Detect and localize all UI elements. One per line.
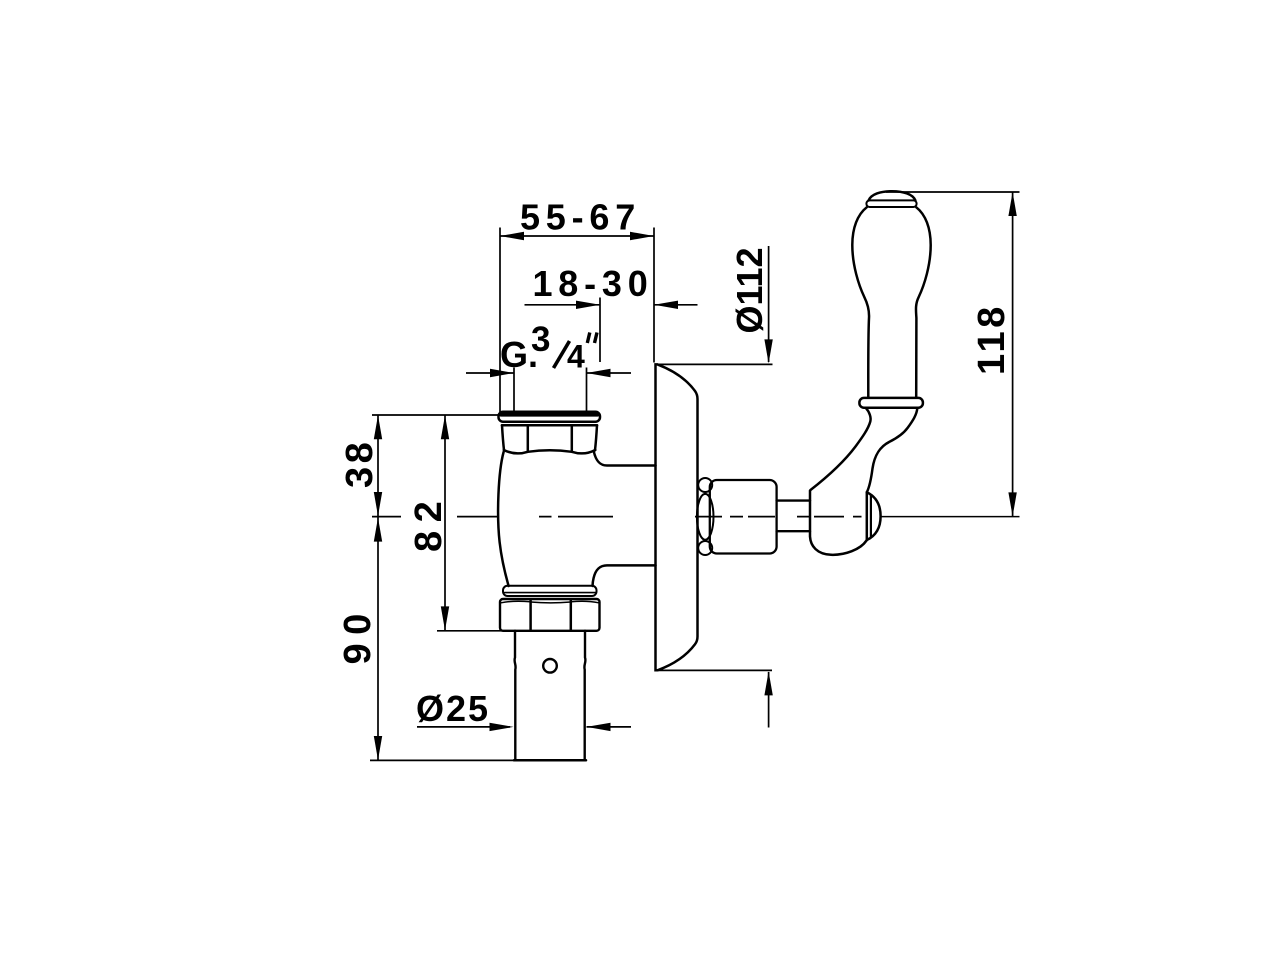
svg-text:3: 3 (531, 320, 550, 359)
dim 55-67 extension line left (499, 228, 501, 413)
svg-text:4: 4 (567, 339, 585, 375)
valve top cap disc (499, 412, 601, 422)
grip dome (869, 191, 916, 200)
dim O25 leader line (417, 726, 510, 728)
grip body right edge (916, 207, 931, 397)
arrowhead G3/4 right (587, 369, 611, 377)
dim O25 right tail (587, 726, 632, 728)
arrowhead 38 top (374, 415, 382, 439)
arrowhead G3/4 left (490, 369, 514, 377)
side tube bottom (593, 565, 656, 586)
dim G3/4 dimension line right tail (587, 372, 632, 374)
outlet pipe (515, 631, 516, 760)
lever ball chord (866, 492, 869, 540)
grip band (866, 200, 916, 207)
svg-text:Ø25: Ø25 (416, 688, 490, 729)
dim O112 extension line bottom (658, 669, 772, 671)
dim 82 extension line bottom (437, 630, 507, 632)
lever arm left edge (811, 408, 871, 490)
dim 18-30 dimension line left tail (525, 304, 601, 306)
center line (spindle axis) (372, 516, 862, 518)
arrowhead 118 bottom (1008, 492, 1016, 516)
arrowhead 38 bottom (374, 492, 382, 516)
svg-text:Ø112: Ø112 (729, 247, 770, 333)
dim O112 extension line top (656, 363, 773, 365)
bottom flange disc (503, 586, 597, 596)
bonnet block (710, 480, 777, 554)
upper hex nut (502, 424, 597, 427)
knurled ring bottom circle (698, 541, 712, 555)
svg-text:38: 38 (339, 439, 381, 488)
svg-text:55-67: 55-67 (520, 197, 641, 238)
spindle shaft bottom (777, 530, 810, 532)
dim 118 extension line top (886, 191, 1020, 193)
svg-text:118: 118 (971, 303, 1013, 375)
arrowhead 55-67 left (500, 232, 524, 240)
lever ball inner chord (870, 496, 872, 538)
arrowhead 18-30 right (654, 301, 678, 309)
screw hole (543, 659, 557, 673)
dim 18-30 dimension line right tail (654, 304, 698, 306)
dim 82 dimension line (444, 415, 446, 631)
arrowhead 18-30 left (576, 301, 600, 309)
dim O112 dimension line lower tail (768, 672, 770, 728)
svg-text:82: 82 (408, 493, 450, 552)
center line extension to 118 dim (881, 516, 1020, 518)
dim 55-67 extension line right / wall face (653, 228, 655, 363)
arrowhead 118 top (1008, 192, 1016, 216)
dim 118 dimension line (1012, 192, 1014, 516)
dim 38/90 dimension line (377, 415, 379, 760)
arrowhead 90 top (374, 518, 382, 542)
lower hex nut (500, 599, 600, 631)
lever ball arc (867, 492, 881, 540)
dim 90 extension line bottom (370, 759, 514, 761)
dim G3/4 extension line left (513, 368, 515, 412)
svg-text:90: 90 (337, 605, 379, 664)
dim G3/4 extension line right (586, 368, 588, 412)
lever arm right edge (867, 408, 918, 492)
grip body left edge (852, 207, 869, 397)
dim O112 dimension line upper tail (768, 246, 770, 362)
spindle shaft top (777, 499, 810, 501)
valve body left edge (498, 452, 508, 586)
dim 18-30 extension line (599, 298, 601, 363)
arrowhead O25 left (490, 723, 514, 731)
dim 38/82 extension line top (372, 414, 507, 416)
knurled ring middle ellipse (697, 494, 714, 540)
valve body right edge / side tube top (594, 452, 656, 466)
knurled ring top circle (698, 478, 712, 492)
dim 55-67 dimension line (500, 235, 654, 237)
grip collar (859, 398, 923, 408)
arrowhead 82 bottom (441, 606, 449, 630)
arrowhead 55-67 right (630, 232, 654, 240)
lever hub left and bottom (810, 491, 867, 555)
dim G3/4 dimension line left tail (466, 372, 514, 374)
arrowhead O112 bottom (764, 671, 772, 695)
arrowhead 90 bottom (374, 736, 382, 760)
svg-text:18-30: 18-30 (532, 263, 653, 304)
arrowhead O112 top (764, 339, 772, 363)
wall plate (656, 364, 698, 670)
arrowhead O25 right (587, 723, 611, 731)
arrowhead 82 top (441, 415, 449, 439)
